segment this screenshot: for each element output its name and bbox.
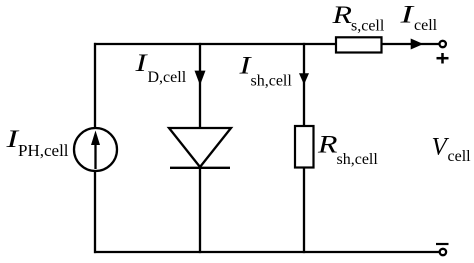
wire: diode branch lower segment bbox=[199, 167, 201, 253]
minus sign bbox=[436, 243, 449, 245]
label Ish,cell bbox=[238, 53, 292, 90]
resistor Rs,cell (horizontal box) bbox=[336, 37, 382, 52]
label Vcell bbox=[432, 134, 472, 166]
label Rs,cell bbox=[331, 2, 385, 34]
svg-text:IPH,cell: IPH,cell bbox=[5, 126, 69, 160]
svg-text:Ish,cell: Ish,cell bbox=[238, 53, 292, 90]
plus sign bbox=[437, 53, 449, 64]
current arrow Icell (output) bbox=[411, 39, 424, 50]
svg-text:Icell: Icell bbox=[399, 2, 438, 35]
current source IPH,cell (circle) bbox=[74, 128, 117, 171]
terminal + (circle) bbox=[440, 41, 446, 47]
wire: shunt branch upper segment bbox=[303, 43, 305, 126]
svg-text:Rsh,cell: Rsh,cell bbox=[317, 131, 379, 167]
terminal - (circle) bbox=[440, 249, 446, 255]
label IPH,cell bbox=[5, 126, 69, 160]
label Rsh,cell bbox=[317, 131, 379, 167]
svg-text:Rs,cell: Rs,cell bbox=[331, 2, 385, 34]
wire: left branch lower segment bbox=[94, 171, 96, 254]
diode cathode bar bbox=[170, 167, 230, 169]
resistor Rsh,cell (vertical box) bbox=[295, 126, 314, 168]
current arrow Ish,cell bbox=[299, 73, 309, 84]
wire: left branch upper segment bbox=[94, 43, 96, 129]
svg-text:ID,cell: ID,cell bbox=[134, 50, 187, 86]
wire: diode branch upper segment bbox=[199, 43, 201, 129]
current arrow ID,cell bbox=[195, 71, 206, 86]
wire: top horizontal right of Rs to + terminal bbox=[381, 43, 440, 45]
label ID,cell bbox=[134, 50, 187, 86]
wire: top horizontal left of Rs bbox=[94, 43, 336, 45]
label Icell bbox=[399, 2, 438, 35]
svg-text:Vcell: Vcell bbox=[432, 134, 472, 166]
wire: shunt branch lower segment bbox=[303, 168, 305, 254]
wire: bottom horizontal bbox=[94, 251, 440, 253]
diode D (triangle) bbox=[169, 128, 231, 167]
